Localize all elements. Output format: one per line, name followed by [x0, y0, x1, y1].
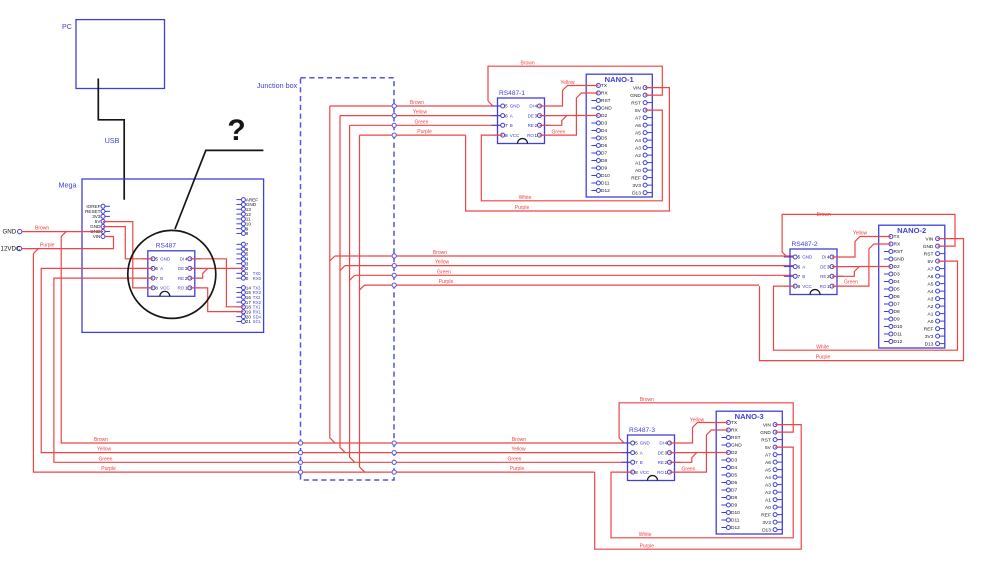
svg-text:A: A — [802, 264, 805, 269]
junction node right bottom — [392, 460, 396, 464]
svg-text:Yellow: Yellow — [560, 80, 575, 86]
svg-text:Green: Green — [437, 269, 451, 275]
svg-text:8: 8 — [505, 133, 508, 138]
wire green junction vertical — [350, 125, 355, 462]
NANO-1 pin TX — [591, 83, 608, 89]
svg-text:D9: D9 — [601, 166, 607, 172]
svg-text:D13: D13 — [632, 190, 641, 196]
RS487 pin DE 3 — [178, 266, 201, 271]
junction node left bottom — [298, 441, 302, 445]
RS487-2 pin 8 VCC — [784, 284, 813, 289]
NANO-3 pin D6 — [721, 480, 737, 486]
svg-text:B: B — [510, 123, 513, 128]
svg-text:A5: A5 — [635, 130, 641, 136]
svg-text:GND: GND — [802, 255, 813, 260]
svg-text:NANO-1: NANO-1 — [605, 75, 635, 84]
Mega pin GND-top — [236, 202, 256, 207]
wire RE join cluster 3 — [670, 453, 697, 463]
svg-text:A4: A4 — [765, 475, 771, 481]
svg-text:RX: RX — [894, 242, 901, 248]
RS487 pin RO 1 — [177, 286, 201, 291]
RS487 pin 7 B — [142, 276, 164, 281]
wire brown bus vertical — [61, 232, 633, 443]
NANO-1 pin D11 — [591, 181, 609, 187]
NANO-3 pin D2 — [721, 450, 737, 456]
NANO-1 pin D2 — [591, 113, 607, 119]
svg-text:4: 4 — [185, 257, 188, 262]
Mega pin 15 — [236, 290, 261, 295]
svg-text:GND: GND — [630, 93, 641, 99]
svg-text:D2: D2 — [894, 264, 900, 270]
svg-text:VIN: VIN — [763, 422, 772, 428]
wire brown GND to Mega GND — [22, 226, 103, 232]
svg-text:A4: A4 — [928, 289, 934, 295]
svg-text:D11: D11 — [601, 181, 610, 187]
svg-text:D8: D8 — [731, 495, 737, 501]
Mega pin 9 — [236, 226, 248, 231]
svg-text:Purple: Purple — [417, 129, 432, 135]
junction node left bottom — [298, 451, 302, 455]
wire purple to NANO-1 VIN — [466, 88, 670, 212]
wire yellow DI-TX cluster 3 — [670, 417, 729, 443]
module RS487-3 body — [628, 427, 675, 481]
RS487-3 pin DE 3 — [658, 450, 681, 455]
svg-text:D4: D4 — [894, 279, 900, 285]
svg-text:A5: A5 — [928, 281, 934, 287]
svg-text:D7: D7 — [894, 302, 900, 308]
Mega pin 19 — [236, 310, 261, 315]
svg-text:Brown: Brown — [410, 100, 424, 106]
svg-text:D4: D4 — [601, 128, 607, 134]
svg-text:REF: REF — [761, 512, 771, 518]
NANO-3 pin D13 — [762, 527, 782, 533]
svg-text:Yellow: Yellow — [511, 447, 526, 453]
wire purple bus vertical — [33, 249, 594, 473]
svg-text:Yellow: Yellow — [690, 417, 705, 423]
svg-text:D3: D3 — [731, 458, 737, 464]
wire yellow junction vertical — [340, 116, 345, 453]
RS487-1 pin RO 1 — [527, 133, 551, 138]
svg-text:A2: A2 — [635, 153, 641, 159]
NANO-1 pin D9 — [591, 166, 607, 172]
svg-text:12VDC: 12VDC — [1, 246, 21, 253]
PC box — [62, 20, 165, 89]
NANO-2 pin A0 — [928, 319, 945, 325]
Mega pin 4 — [236, 257, 248, 262]
svg-text:SCL: SCL — [253, 319, 262, 324]
svg-text:6: 6 — [635, 450, 638, 455]
NANO-3 pin RST — [761, 437, 782, 443]
NANO-1 pin A7 — [635, 115, 652, 121]
NANO-2 pin D2 — [884, 264, 900, 270]
wire purple junction to RS487-1 — [360, 129, 466, 135]
NANO-2 pin GND — [884, 257, 905, 263]
module RS487-2 body — [790, 241, 837, 295]
svg-text:A0: A0 — [765, 505, 771, 511]
RS487-2 pin 6 A — [784, 264, 806, 269]
svg-text:Yellow: Yellow — [413, 110, 428, 116]
svg-text:A5: A5 — [765, 467, 771, 473]
svg-text:2: 2 — [827, 274, 830, 279]
NANO-2 pin A2 — [928, 304, 945, 310]
svg-text:GND: GND — [760, 430, 771, 436]
NANO-2 pin 5V — [928, 259, 945, 265]
svg-text:1: 1 — [185, 286, 188, 291]
wire brown to NANO-2 GND — [782, 212, 955, 257]
Junction box dashed enclosure — [257, 78, 394, 480]
svg-text:GND: GND — [601, 106, 612, 112]
svg-text:4: 4 — [827, 255, 830, 260]
svg-text:D10: D10 — [601, 173, 610, 179]
RS487 pin 6 A — [142, 266, 164, 271]
wire green bus — [54, 278, 633, 462]
svg-text:A0: A0 — [928, 319, 934, 325]
svg-text:D4: D4 — [731, 465, 737, 471]
wire yellow DI-TX cluster 1 — [540, 80, 599, 106]
junction node right middle — [392, 283, 396, 287]
svg-text:3: 3 — [185, 266, 188, 271]
wire RS487 RO to Mega pin 19 RX1 — [190, 288, 244, 312]
svg-text:D12: D12 — [731, 525, 740, 531]
svg-text:Yellow: Yellow — [435, 260, 450, 266]
Mega pin 5V — [95, 219, 110, 224]
Mega pin 7 — [236, 242, 248, 247]
NANO-2 pin A1 — [928, 311, 945, 317]
svg-text:DE: DE — [528, 113, 534, 118]
svg-text:VCC: VCC — [160, 286, 170, 291]
svg-text:5: 5 — [635, 441, 638, 446]
NANO-3 pin D5 — [721, 473, 737, 479]
NANO-2 pin D9 — [884, 317, 900, 323]
junction node right middle — [392, 254, 396, 258]
wire RS487 DI to Mega pin 18 TX1 — [190, 259, 244, 307]
svg-text:DE: DE — [178, 266, 184, 271]
svg-text:3: 3 — [665, 450, 668, 455]
wire RE join cluster 1 — [540, 116, 567, 126]
svg-text:D5: D5 — [731, 473, 737, 479]
RS487-3 pin RO 1 — [657, 470, 681, 475]
junction node right bottom — [392, 451, 396, 455]
svg-text:B: B — [802, 274, 805, 279]
wire brown junction to RS487-1 — [330, 100, 503, 106]
svg-text:8: 8 — [246, 231, 249, 236]
svg-text:D2: D2 — [731, 450, 737, 456]
svg-text:NANO-2: NANO-2 — [897, 226, 926, 235]
svg-text:B: B — [160, 276, 163, 281]
svg-text:REF: REF — [631, 175, 641, 181]
junction node right top — [392, 104, 396, 108]
svg-text:RST: RST — [731, 435, 741, 441]
svg-text:VIN: VIN — [633, 85, 642, 91]
wire purple junction to RS487-2 — [365, 279, 760, 285]
Mega pin 21 — [236, 319, 261, 324]
module RS487-1 body — [498, 90, 545, 144]
svg-text:D5: D5 — [601, 136, 607, 142]
svg-text:A6: A6 — [928, 274, 934, 280]
svg-text:Purple: Purple — [101, 466, 116, 472]
svg-text:D9: D9 — [894, 317, 900, 323]
svg-text:Brown: Brown — [521, 60, 535, 66]
terminal 12VDC — [1, 246, 22, 253]
wire DE-D2 cluster 2 — [832, 266, 891, 268]
wire green RO-RX cluster 1 — [540, 93, 599, 136]
module NANO-1 body — [586, 74, 652, 197]
svg-text:GND: GND — [923, 244, 934, 250]
svg-text:Green: Green — [844, 280, 858, 286]
svg-text:3V3: 3V3 — [762, 520, 771, 526]
NANO-3 pin D12 — [721, 525, 740, 531]
Mega pin VIN — [93, 234, 110, 239]
Mega board box — [59, 179, 264, 332]
NANO-2 pin D4 — [884, 279, 900, 285]
svg-text:VIN: VIN — [93, 234, 101, 239]
svg-text:Brown: Brown — [433, 250, 447, 256]
NANO-2 pin A7 — [928, 266, 945, 272]
NANO-2 pin REF — [924, 326, 945, 332]
svg-text:RX0: RX0 — [253, 276, 262, 281]
svg-text:PC: PC — [62, 22, 72, 31]
NANO-3 pin VIN — [763, 422, 782, 428]
svg-text:RO: RO — [177, 286, 184, 291]
svg-text:RS487-3: RS487-3 — [629, 427, 655, 434]
NANO-3 pin D4 — [721, 465, 737, 471]
junction node right top — [392, 133, 396, 137]
svg-text:Green: Green — [415, 119, 429, 125]
svg-text:D13: D13 — [925, 341, 934, 347]
wire yellow junction to RS487-1 — [340, 110, 503, 116]
NANO-1 pin A1 — [635, 160, 652, 166]
svg-text:7: 7 — [798, 274, 801, 279]
NANO-1 pin A4 — [635, 138, 652, 144]
Mega pin 12 — [236, 212, 251, 217]
NANO-1 pin D13 — [632, 190, 652, 196]
svg-text:RS487: RS487 — [156, 243, 176, 250]
NANO-1 pin REF — [631, 175, 652, 181]
Mega pin 2 — [236, 266, 248, 271]
wire RS487 DE to Mega pin 2 — [190, 267, 244, 269]
svg-text:Brown: Brown — [640, 397, 654, 403]
svg-text:7: 7 — [155, 276, 158, 281]
junction node right bottom — [392, 441, 396, 445]
svg-text:DE: DE — [820, 264, 826, 269]
svg-text:D11: D11 — [731, 518, 740, 524]
svg-text:8: 8 — [635, 470, 638, 475]
svg-text:5: 5 — [505, 104, 508, 109]
svg-text:?: ? — [227, 114, 245, 147]
svg-text:Purple: Purple — [510, 466, 525, 472]
NANO-1 pin D12 — [591, 188, 610, 194]
NANO-2 pin A4 — [928, 289, 945, 295]
svg-text:B: B — [640, 460, 643, 465]
NANO-3 pin A3 — [765, 482, 782, 488]
svg-text:Yellow: Yellow — [853, 230, 868, 236]
NANO-1 pin 3V3 — [632, 183, 652, 189]
Mega pin RESET — [85, 209, 110, 214]
NANO-3 pin D8 — [721, 495, 737, 501]
wire Mega 5V to RS487 VCC — [103, 222, 153, 288]
svg-text:A6: A6 — [765, 460, 771, 466]
svg-text:D6: D6 — [894, 294, 900, 300]
wire green junction to RS487-2 — [355, 269, 796, 275]
NANO-3 pin A0 — [765, 505, 782, 511]
svg-text:1: 1 — [535, 133, 538, 138]
svg-text:Brown: Brown — [817, 212, 831, 218]
svg-text:White: White — [816, 344, 829, 350]
svg-text:D3: D3 — [894, 272, 900, 278]
svg-text:RX: RX — [731, 428, 738, 434]
magnifier circle around RS487 — [128, 230, 216, 318]
svg-text:Purple: Purple — [40, 243, 55, 249]
wire yellow bus — [41, 268, 633, 452]
svg-text:RE: RE — [528, 123, 534, 128]
NANO-2 pin D12 — [884, 339, 903, 345]
NANO-2 pin D10 — [884, 324, 903, 330]
svg-text:A0: A0 — [635, 168, 641, 174]
RS487-1 pin 8 VCC — [491, 133, 520, 138]
svg-text:3: 3 — [827, 264, 830, 269]
Mega pin 1 — [236, 271, 261, 276]
module NANO-2 body — [879, 225, 945, 348]
svg-text:Green: Green — [99, 456, 113, 462]
NANO-2 pin A3 — [928, 296, 945, 302]
NANO-1 pin RX — [591, 91, 608, 97]
svg-text:USB: USB — [105, 136, 120, 145]
NANO-1 pin A5 — [635, 130, 652, 136]
svg-text:GND: GND — [2, 229, 16, 236]
NANO-3 pin A2 — [765, 490, 782, 496]
NANO-1 pin D4 — [591, 128, 607, 134]
RS487-1 pin DE 3 — [528, 113, 551, 118]
svg-text:Yellow: Yellow — [97, 447, 112, 453]
svg-text:D6: D6 — [601, 143, 607, 149]
junction node right bottom — [392, 470, 396, 474]
svg-text:GND: GND — [640, 441, 651, 446]
svg-text:8: 8 — [155, 286, 158, 291]
junction node left bottom — [298, 460, 302, 464]
junction node left bottom — [298, 470, 302, 474]
wire USB cable — [98, 79, 124, 200]
NANO-2 pin D5 — [884, 287, 900, 293]
svg-text:DI: DI — [822, 255, 827, 260]
svg-text:A2: A2 — [765, 490, 771, 496]
NANO-2 pin RST — [884, 249, 903, 255]
NANO-1 pin GND — [630, 93, 652, 99]
svg-text:2: 2 — [185, 276, 188, 281]
Mega pin IOREF — [86, 204, 110, 209]
Mega pin 6 — [236, 247, 248, 252]
svg-text:8: 8 — [798, 284, 801, 289]
svg-text:RE: RE — [820, 274, 826, 279]
svg-text:A7: A7 — [765, 452, 771, 458]
svg-text:RS487-1: RS487-1 — [499, 90, 525, 97]
wire brown junction to RS487-2 — [335, 250, 795, 256]
module RS487 body — [148, 243, 195, 297]
svg-text:RST: RST — [631, 100, 641, 106]
wire RE join cluster 2 — [832, 267, 859, 277]
svg-text:D7: D7 — [731, 488, 737, 494]
svg-text:TX: TX — [601, 83, 608, 89]
Mega pin 20 — [236, 314, 261, 319]
wire green junction to RS487-1 — [350, 119, 503, 125]
wire green RO-RX cluster 2 — [832, 244, 891, 286]
NANO-1 pin D3 — [591, 121, 607, 127]
svg-text:RST: RST — [601, 98, 611, 104]
junction node right top — [392, 123, 396, 127]
NANO-1 pin GND — [591, 106, 612, 112]
RS487-1 pin 5 GND — [491, 104, 520, 109]
svg-text:DI: DI — [180, 257, 185, 262]
svg-text:GND: GND — [731, 443, 742, 449]
NANO-1 pin A2 — [635, 153, 652, 159]
svg-text:GND: GND — [510, 104, 521, 109]
RS487-3 pin 6 A — [621, 450, 643, 455]
svg-text:DE: DE — [658, 450, 664, 455]
NANO-3 pin RX — [721, 428, 738, 434]
wire white VCC-5V cluster 3 — [611, 447, 793, 538]
Mega pin 5 — [236, 252, 248, 257]
svg-text:RST: RST — [761, 437, 771, 443]
svg-text:GND: GND — [160, 257, 171, 262]
RS487-3 pin 5 GND — [621, 441, 650, 446]
RS487 pin 8 VCC — [142, 286, 171, 291]
svg-text:5V: 5V — [928, 259, 935, 265]
svg-text:3: 3 — [535, 113, 538, 118]
Mega pin 0 — [236, 276, 261, 281]
NANO-3 pin D10 — [721, 510, 740, 516]
svg-text:A7: A7 — [928, 266, 934, 272]
svg-text:A7: A7 — [635, 115, 641, 121]
NANO-1 pin A6 — [635, 123, 652, 129]
svg-text:1: 1 — [665, 470, 668, 475]
RS487-1 pin RE 2 — [528, 123, 551, 128]
wire purple to NANO-3 VIN — [595, 425, 802, 550]
svg-text:Purple: Purple — [640, 543, 655, 549]
svg-text:4: 4 — [535, 104, 538, 109]
wire green RO-RX cluster 3 — [670, 430, 729, 473]
Mega pin AREF — [236, 197, 258, 202]
RS487-2 pin DE 3 — [820, 264, 843, 269]
NANO-1 pin D10 — [591, 173, 610, 179]
svg-text:White: White — [519, 195, 532, 201]
RS487-2 pin RE 2 — [820, 274, 843, 279]
svg-text:RE: RE — [178, 276, 184, 281]
NANO-1 pin A3 — [635, 145, 652, 151]
NANO-2 pin A5 — [928, 281, 945, 287]
wire Mega GND to RS487 GND — [103, 227, 153, 259]
svg-text:0: 0 — [246, 276, 249, 281]
svg-text:TX: TX — [894, 234, 901, 240]
NANO-2 pin D7 — [884, 302, 900, 308]
svg-text:Junction box: Junction box — [257, 81, 298, 90]
svg-text:Purple: Purple — [515, 205, 530, 211]
RS487-3 pin RE 2 — [658, 460, 681, 465]
svg-text:D8: D8 — [601, 158, 607, 164]
NANO-3 pin REF — [761, 512, 782, 518]
svg-text:A4: A4 — [635, 138, 641, 144]
NANO-3 pin 5V — [765, 445, 782, 451]
NANO-2 pin D8 — [884, 309, 900, 315]
svg-text:VIN: VIN — [925, 236, 934, 242]
junction node right middle — [392, 273, 396, 277]
NANO-2 pin TX — [884, 234, 901, 240]
Mega pin 18 — [236, 305, 261, 310]
svg-text:6: 6 — [505, 113, 508, 118]
NANO-2 pin 3V3 — [925, 334, 945, 340]
svg-text:A: A — [510, 113, 513, 118]
junction node right top — [392, 114, 396, 118]
svg-text:NANO-3: NANO-3 — [735, 412, 764, 421]
svg-text:A3: A3 — [928, 296, 934, 302]
